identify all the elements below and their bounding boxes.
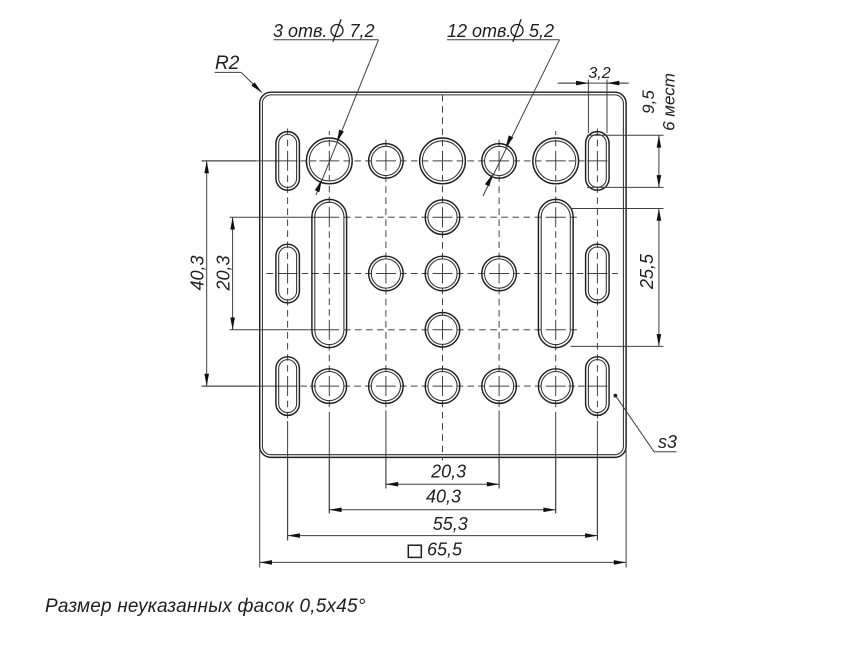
dimension 9,5 6 mest (639, 73, 679, 187)
dimension 20,3 bottom (386, 462, 499, 485)
centerline col c6 vertical (596, 129, 598, 541)
centerline col c4 vertical (498, 140, 500, 489)
hole D5,2 #12 (538, 369, 573, 404)
slot 3,2x9,5 bottom-right (586, 357, 610, 416)
hole D5,2 #3 (425, 200, 460, 235)
centerline col c5 vertical (555, 131, 557, 513)
extension line plate right edge bottom (625, 450, 627, 568)
svg-text:55,3: 55,3 (433, 514, 468, 534)
centerline col c1 vertical (328, 131, 330, 513)
centerline col c2 vertical (385, 140, 387, 489)
hole D5,2 #6 (482, 256, 517, 291)
plate outline (square 65,5 rounded R2) (260, 92, 626, 457)
hole D5,2 #7 (425, 313, 460, 348)
hole D5,2 #11 (482, 369, 517, 404)
svg-text:3 отв.: 3 отв. (273, 21, 327, 41)
label s3 (658, 432, 677, 452)
leader s3 (614, 394, 677, 452)
slot 25,5 long right (538, 199, 573, 347)
hole D5,2 #9 (369, 369, 404, 404)
dimension 20,3 left (214, 217, 234, 330)
svg-text:20,3: 20,3 (214, 255, 234, 291)
centerline row5 horizontal (202, 385, 608, 387)
svg-text:5,2: 5,2 (529, 21, 554, 41)
svg-text:12 отв.: 12 отв. (447, 21, 511, 41)
hole D5,2 #2 (482, 144, 517, 179)
slot 25,5 long left (312, 199, 347, 347)
note chamfers (45, 596, 366, 617)
hole D7,2 #3 (533, 138, 579, 184)
svg-text:20,3: 20,3 (430, 462, 466, 482)
svg-text:9,5: 9,5 (639, 90, 658, 114)
slot 3,2x9,5 mid-right (586, 244, 610, 303)
svg-text:40,3: 40,3 (188, 255, 208, 290)
centerline col c0 vertical (287, 129, 289, 541)
dimension square 65,5 bottom (260, 540, 626, 563)
dimension 40,3 left (188, 161, 208, 386)
svg-text:6 мест: 6 мест (660, 73, 679, 131)
extension line col c6 bottom (596, 457, 598, 540)
dimension 40,3 bottom (329, 487, 555, 510)
extension line col c4 bottom (498, 457, 500, 488)
extension line plate left edge bottom (259, 450, 261, 568)
hole D5,2 #4 (369, 256, 404, 291)
hole D5,2 #5 (425, 256, 460, 291)
extension line col c0 bottom (287, 457, 289, 540)
extension lines 25,5 (571, 209, 664, 347)
centerline col c3 vertical (442, 95, 444, 460)
slot 3,2x9,5 top-right (586, 132, 610, 191)
svg-text:65,5: 65,5 (427, 540, 463, 560)
hole D7,2 #2 (420, 138, 466, 184)
hole D7,2 #1 (306, 138, 352, 184)
hole D5,2 #8 (312, 369, 347, 404)
extension lines 3,2 (588, 80, 607, 134)
label 3 otv. D7,2 (273, 19, 375, 42)
hole D5,2 #10 (425, 369, 460, 404)
slot 3,2x9,5 top-left (276, 132, 300, 191)
svg-text:R2: R2 (215, 53, 240, 74)
svg-text:25,5: 25,5 (637, 253, 657, 290)
extension lines 9,5 (587, 135, 664, 187)
svg-text:40,3: 40,3 (426, 487, 461, 507)
centerline row1 horizontal (202, 160, 608, 162)
dimension 25,5 (637, 209, 659, 347)
dimension 55,3 bottom (288, 514, 598, 536)
svg-text:7,2: 7,2 (350, 21, 375, 41)
dimension 3,2 (558, 65, 630, 83)
slot 3,2x9,5 bottom-left (276, 357, 300, 416)
hole D5,2 #1 (369, 144, 404, 179)
centerline row3 horizontal (266, 273, 618, 275)
svg-text:3,2: 3,2 (588, 65, 610, 82)
svg-text:s3: s3 (658, 432, 677, 452)
leader label 12 holes D5,2 (447, 40, 560, 196)
centerline row2 horizontal (230, 216, 577, 218)
slot 3,2x9,5 mid-left (276, 244, 300, 303)
label 12 otv. D5,2 (447, 19, 554, 42)
extension line col c5 bottom (555, 457, 557, 513)
extension line col c2 bottom (385, 457, 387, 488)
leader label 3 holes D7,2 (274, 40, 379, 195)
extension line col c1 bottom (328, 457, 330, 513)
plate edge chamfer contour 0,5x45 (262, 95, 623, 455)
svg-text:Размер неуказанных фасок 0,: Размер неуказанных фасок 0,5х45° (45, 596, 366, 617)
extension lines 40,3 left (202, 161, 256, 386)
centerline row4 horizontal (230, 329, 577, 331)
leader R2 (215, 72, 262, 92)
label R2 (215, 53, 240, 74)
